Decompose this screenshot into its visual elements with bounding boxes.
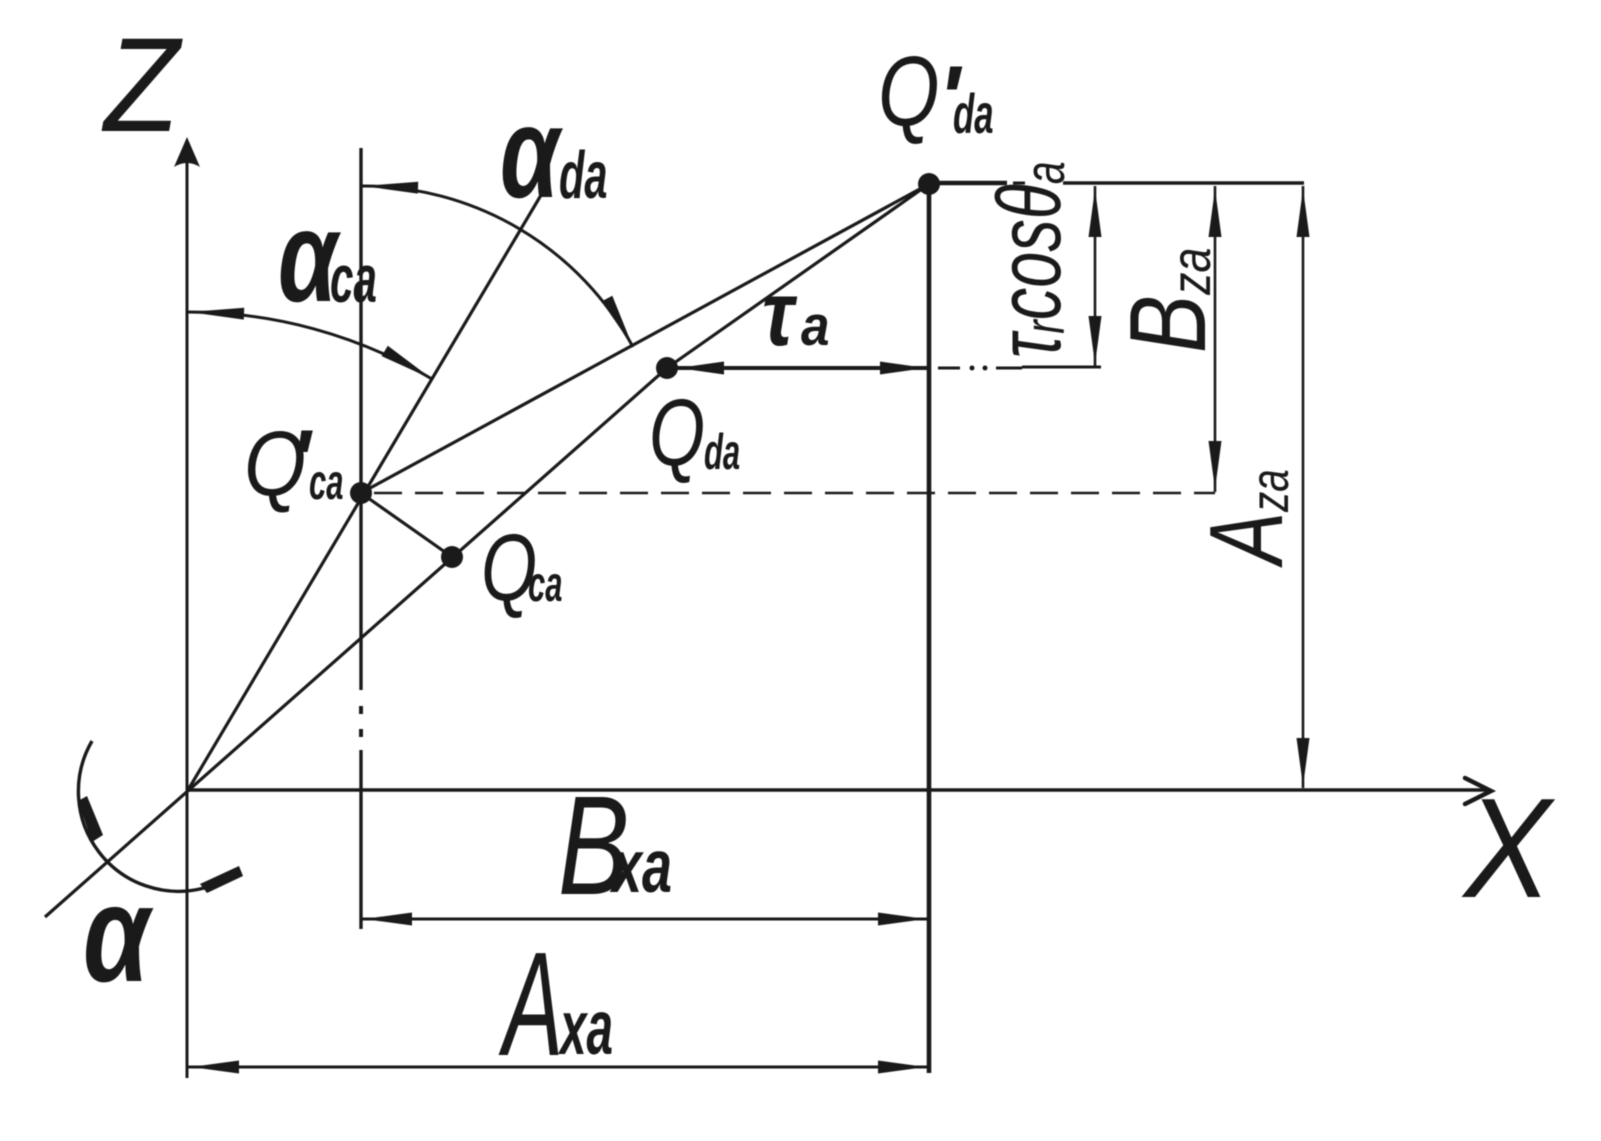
label B_za (rotated) [1107, 248, 1228, 353]
wire X-axis line [187, 788, 1488, 791]
label Q_ca [481, 514, 562, 620]
wire oblique line through origin, Q_ca, Q_da [45, 368, 667, 917]
node Q_ca dot [441, 546, 463, 568]
svg-text:ca: ca [309, 453, 343, 509]
tick at bottom of tau_r dimension [1022, 366, 1101, 369]
svg-text:α: α [500, 80, 563, 226]
label alpha_da [500, 80, 607, 226]
svg-text:Q: Q [878, 36, 940, 146]
label X axis [1461, 768, 1556, 927]
svg-text:α: α [83, 857, 154, 1011]
wire Z-axis line [186, 150, 189, 1078]
arrow flick at end of alpha arc [200, 866, 243, 893]
label Z axis [101, 10, 183, 160]
wire line Q-prime-ca to Q-prime-da [361, 184, 929, 493]
dimension line B_xa [361, 918, 928, 921]
thick arrowhead segment on alpha arc [78, 796, 103, 842]
label Q_da [649, 379, 740, 485]
svg-text:A: A [498, 921, 563, 1086]
node Q-prime-da dot [918, 173, 940, 195]
svg-text:xa: xa [558, 984, 613, 1071]
dimension line tau_r cos theta_a [1094, 186, 1097, 367]
svg-text:Z: Z [101, 10, 183, 160]
svg-text:da: da [704, 423, 740, 479]
wire vertical reference line through Q-prime-ca [359, 148, 362, 690]
dimension line tau_a [667, 366, 929, 370]
Z axis arrowhead [174, 137, 200, 167]
svg-text:ca: ca [330, 241, 377, 317]
svg-text:a: a [801, 295, 830, 358]
label tau_r cos theta_a (rotated) [979, 161, 1080, 358]
svg-text:Q: Q [649, 379, 705, 485]
wire segment Q-prime-ca to Q_ca [361, 493, 452, 557]
dimension line A_za [1302, 186, 1305, 788]
dash-dot tail of tau_a line [938, 367, 960, 370]
dimension line B_za [1214, 186, 1217, 492]
angle arc alpha_da [361, 186, 633, 347]
node Q-prime-ca dot [350, 482, 372, 504]
node Q_da dot [656, 357, 678, 379]
label alpha at origin [83, 857, 154, 1011]
wire thick vertical extension line through Q-prime-da [927, 184, 932, 1073]
wire steep line from origin through Q-prime-ca [188, 185, 547, 790]
label Q-prime-ca [244, 413, 343, 515]
wire line Q_da to Q-prime-da [667, 184, 929, 368]
svg-text:X: X [1461, 768, 1556, 927]
svg-text:da: da [953, 83, 994, 146]
label B_xa [558, 767, 672, 925]
svg-text:τ: τ [762, 263, 798, 365]
svg-text:xa: xa [610, 824, 673, 908]
label A_xa [498, 921, 613, 1086]
svg-text:ca: ca [528, 555, 562, 611]
label Q-prime-da [878, 36, 994, 150]
wire top horizontal extension line from Q-prime-da [929, 181, 1007, 186]
dimension line A_xa [188, 1066, 928, 1069]
label tau_a [762, 263, 830, 365]
angle arc alpha_ca [187, 312, 432, 379]
dashed horizontal line at Q-prime-ca level [374, 492, 1215, 494]
rotation arrow alpha at origin [78, 741, 204, 891]
svg-text:da: da [559, 138, 607, 213]
label alpha_ca [278, 184, 377, 330]
label A_za (rotated) [1189, 469, 1304, 568]
X axis arrowhead [1465, 778, 1491, 804]
